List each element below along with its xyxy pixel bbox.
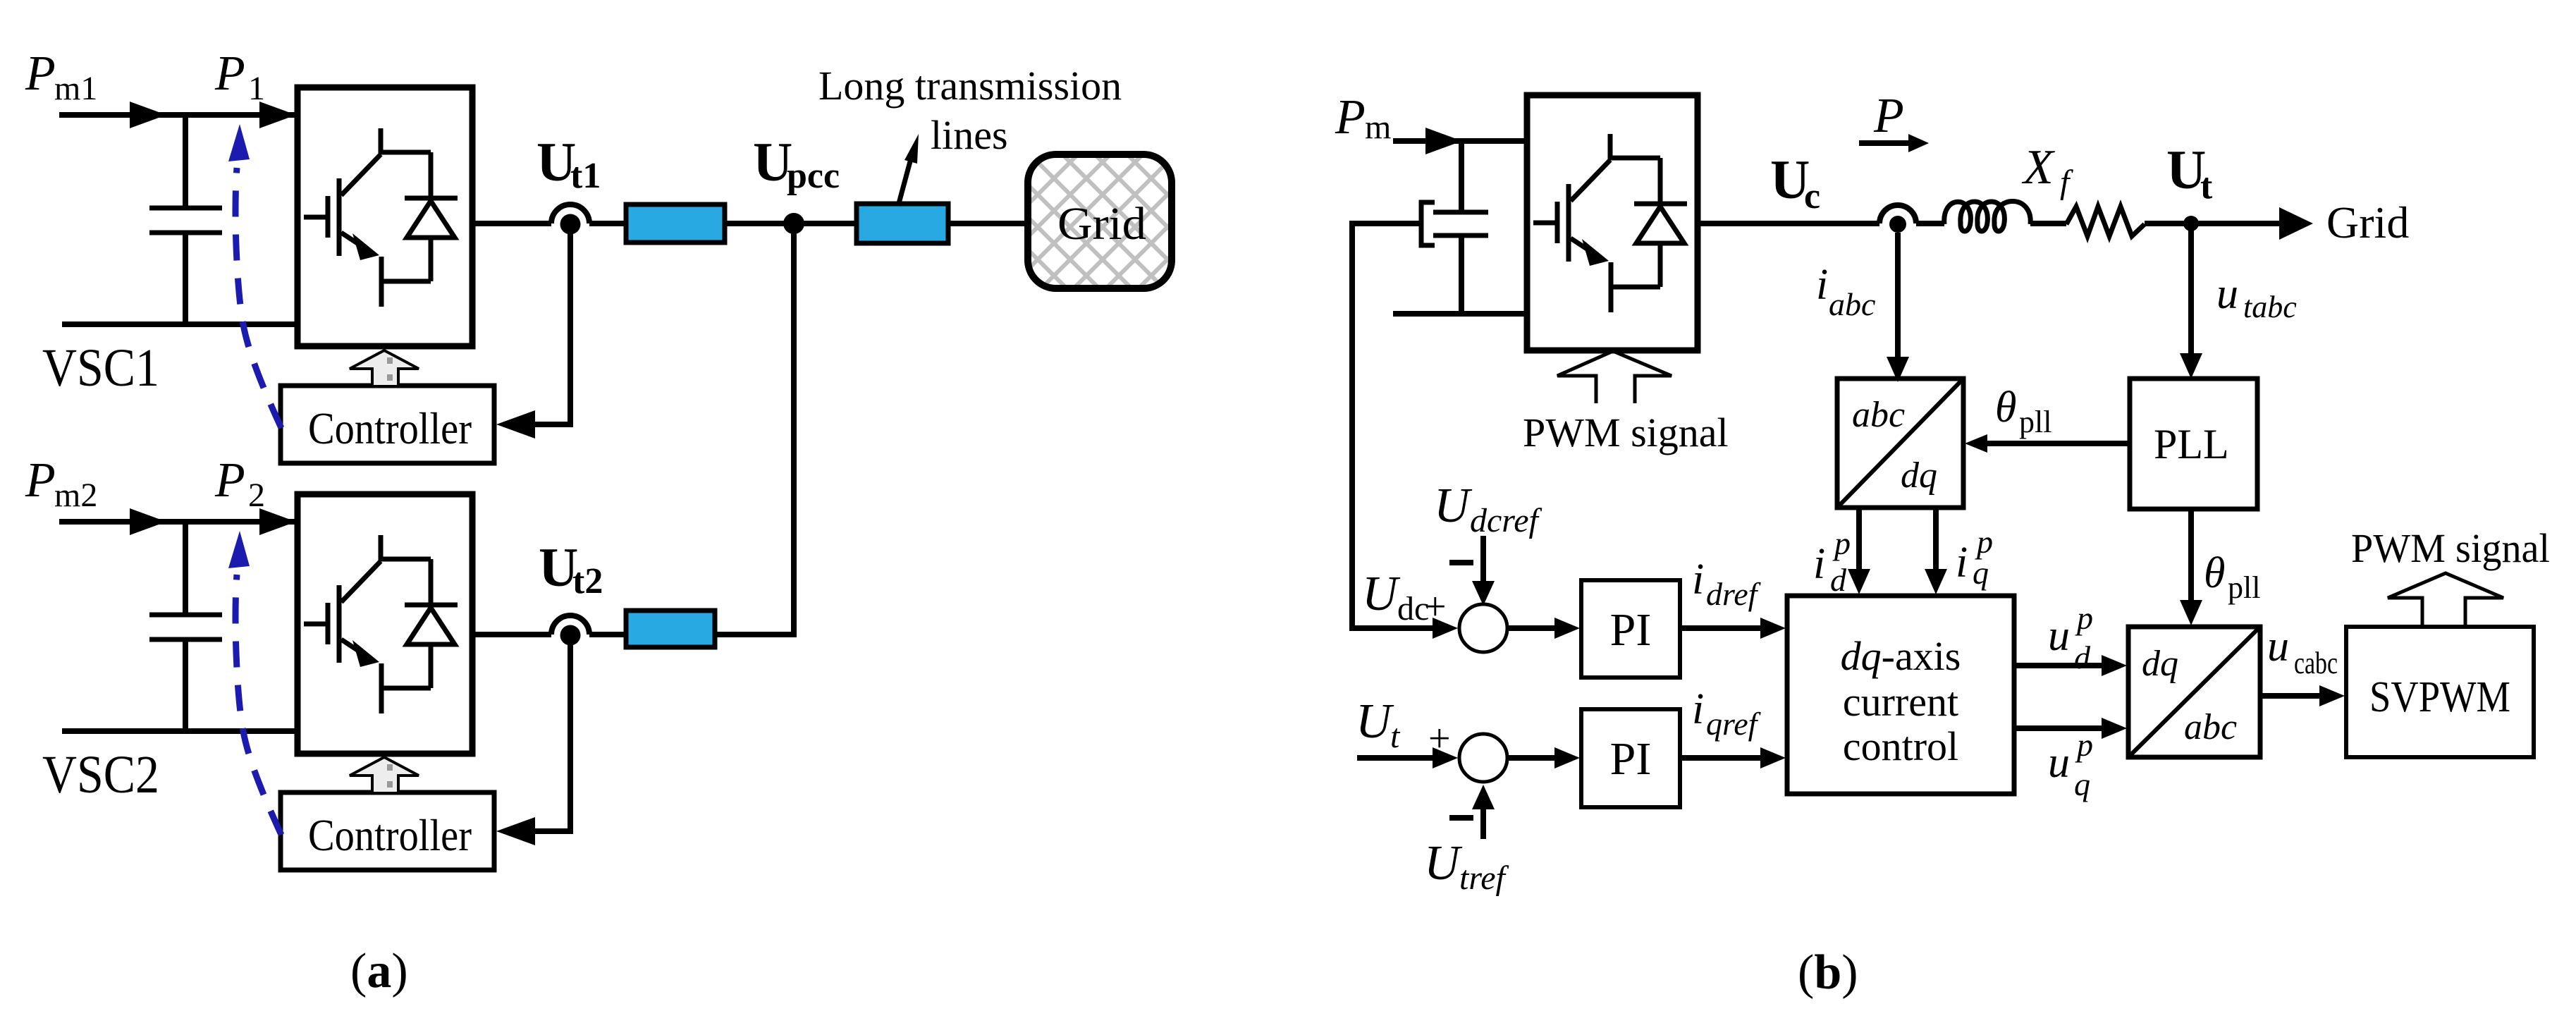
svg-text:lines: lines <box>931 112 1008 158</box>
svg-text:θ: θ <box>1995 384 2016 431</box>
svg-text:p: p <box>1832 525 1851 561</box>
svg-text:dq-axis: dq-axis <box>1841 633 1961 679</box>
svg-text:dq: dq <box>1901 455 1937 496</box>
svg-text:pcc: pcc <box>787 156 840 196</box>
svg-text:pll: pll <box>2019 405 2051 439</box>
svg-text:(b): (b) <box>1798 945 1858 1000</box>
svg-text:m2: m2 <box>54 477 97 514</box>
svg-text:f: f <box>2060 164 2073 201</box>
svg-text:PWM signal: PWM signal <box>1523 410 1729 455</box>
svg-text:P: P <box>214 47 245 101</box>
svg-text:t2: t2 <box>572 561 603 601</box>
svg-text:current: current <box>1843 679 1958 725</box>
svg-text:Controller: Controller <box>308 404 472 453</box>
svg-text:tabc: tabc <box>2243 290 2297 324</box>
svg-text:abc: abc <box>2184 707 2237 747</box>
svg-text:1: 1 <box>248 70 265 107</box>
svg-text:Controller: Controller <box>308 811 472 860</box>
svg-text:P: P <box>25 47 56 101</box>
svg-text:i: i <box>1816 261 1828 309</box>
svg-text:m1: m1 <box>54 70 97 107</box>
svg-text:d: d <box>2074 639 2091 675</box>
svg-text:control: control <box>1843 723 1958 769</box>
svg-text:abc: abc <box>1852 395 1905 435</box>
svg-text:Long transmission: Long transmission <box>818 63 1122 109</box>
svg-text:X: X <box>2021 140 2056 195</box>
svg-text:VSC1: VSC1 <box>42 338 159 398</box>
svg-text:θ: θ <box>2204 549 2225 597</box>
svg-text:PI: PI <box>1610 733 1652 785</box>
svg-text:p: p <box>2075 727 2093 763</box>
svg-text:P: P <box>1335 90 1366 145</box>
svg-text:PWM signal: PWM signal <box>2351 525 2550 571</box>
svg-text:t: t <box>2200 166 2213 207</box>
svg-text:t1: t1 <box>570 156 601 196</box>
svg-text:(a): (a) <box>350 944 408 998</box>
svg-text:d: d <box>1830 562 1847 598</box>
svg-text:U: U <box>1362 567 1401 621</box>
svg-text:u: u <box>2216 270 2238 318</box>
svg-text:dcref: dcref <box>1470 502 1542 539</box>
svg-text:c: c <box>1804 176 1820 216</box>
svg-text:SVPWM: SVPWM <box>2369 673 2510 721</box>
svg-text:U: U <box>1424 836 1463 890</box>
svg-text:2: 2 <box>248 477 265 514</box>
svg-text:dq: dq <box>2142 644 2178 684</box>
svg-text:m: m <box>1365 109 1391 146</box>
svg-text:tref: tref <box>1459 859 1509 897</box>
svg-text:P: P <box>1873 89 1904 143</box>
svg-text:pll: pll <box>2228 570 2260 605</box>
svg-text:dref: dref <box>1706 576 1762 612</box>
svg-text:u: u <box>2048 739 2070 787</box>
svg-text:cabc: cabc <box>2294 646 2338 680</box>
svg-text:u: u <box>2048 612 2070 660</box>
svg-text:abc: abc <box>1829 286 1875 322</box>
svg-text:U: U <box>1434 479 1473 533</box>
svg-text:qref: qref <box>1706 706 1762 742</box>
svg-text:Grid: Grid <box>2326 197 2409 247</box>
svg-text:Grid: Grid <box>1057 198 1146 250</box>
svg-text:i: i <box>1692 685 1704 733</box>
svg-text:+: + <box>1424 585 1447 629</box>
svg-text:i: i <box>1956 539 1968 587</box>
svg-text:P: P <box>25 453 56 508</box>
svg-text:P: P <box>214 453 245 508</box>
svg-text:U: U <box>1356 694 1394 749</box>
svg-text:p: p <box>2075 600 2093 636</box>
svg-text:i: i <box>1813 540 1825 588</box>
svg-text:t: t <box>1390 718 1401 755</box>
svg-text:PI: PI <box>1610 604 1652 656</box>
svg-text:VSC2: VSC2 <box>42 745 159 804</box>
svg-text:q: q <box>2074 766 2090 802</box>
svg-text:q: q <box>1973 555 1989 591</box>
svg-text:u: u <box>2267 623 2289 670</box>
svg-text:PLL: PLL <box>2154 421 2229 467</box>
svg-text:i: i <box>1692 556 1704 603</box>
